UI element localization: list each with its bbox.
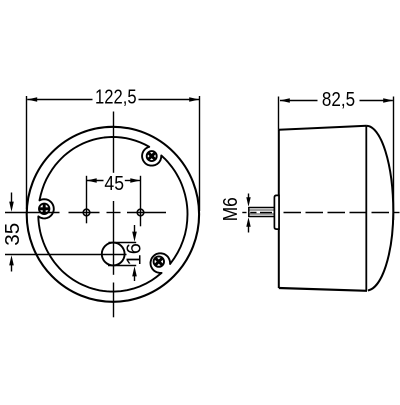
svg-text:16: 16 <box>124 243 146 265</box>
svg-text:35: 35 <box>2 223 24 246</box>
svg-text:82,5: 82,5 <box>322 89 355 111</box>
svg-text:122,5: 122,5 <box>95 86 137 108</box>
svg-text:45: 45 <box>104 173 124 195</box>
svg-text:M6: M6 <box>220 197 242 221</box>
